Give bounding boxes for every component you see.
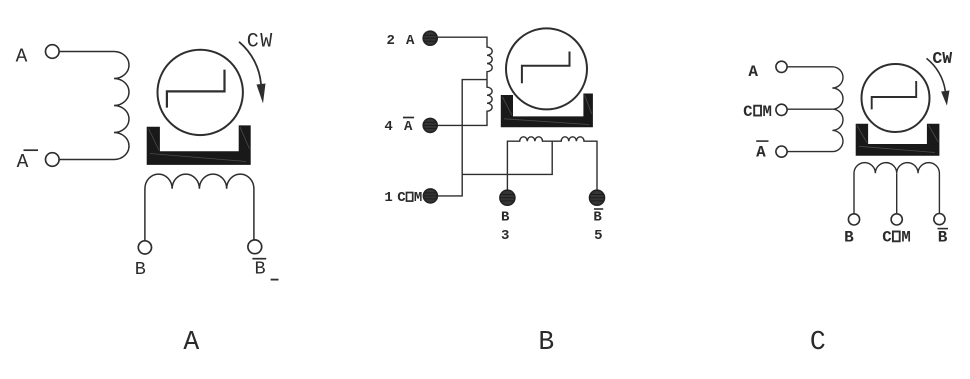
step symbol inside rotor — [522, 52, 570, 84]
motor rotor circle U-C — [862, 64, 930, 132]
svg-text:A: A — [756, 144, 766, 162]
svg-text:C: C — [743, 103, 752, 121]
svg-text:C: C — [397, 190, 406, 206]
svg-text:A: A — [16, 46, 28, 68]
center tap wire to COM — [437, 80, 487, 196]
bracket hatch lines — [149, 127, 250, 162]
terminal A-bar — [46, 153, 60, 167]
terminal COM hatch — [424, 193, 438, 199]
svg-text:C: C — [810, 327, 826, 357]
terminal A — [776, 61, 787, 72]
svg-text:M: M — [414, 190, 422, 206]
terminal 2A (solid) — [423, 31, 437, 45]
stator bracket C — [856, 124, 940, 156]
terminal B-bar — [248, 240, 262, 254]
svg-text:M: M — [901, 229, 910, 247]
CW arrowhead — [941, 91, 949, 106]
CW rotation arrow arc — [239, 42, 261, 84]
svg-text:B: B — [135, 259, 146, 280]
CW rotation arrow arc — [927, 58, 946, 91]
terminal Bbar/5 hatch — [590, 195, 604, 201]
step symbol inside rotor — [167, 70, 225, 108]
svg-text:A: A — [748, 63, 758, 81]
phase B winding (two groups of 3 loops) with leads — [507, 137, 597, 190]
terminal 1 COM (solid) — [423, 189, 437, 203]
terminal B — [848, 214, 859, 225]
svg-text:5: 5 — [594, 228, 602, 244]
macron of A-bar — [403, 117, 414, 119]
svg-text:1: 1 — [384, 190, 392, 206]
svg-text:3: 3 — [501, 228, 509, 244]
svg-text:B: B — [501, 210, 510, 226]
svg-text:CW: CW — [247, 30, 274, 53]
terminal 2A hatch — [424, 35, 438, 41]
bracket hatch lines — [502, 95, 592, 125]
terminal COM — [891, 214, 902, 225]
wire from 2A + upper half winding (3 loops) + lower half winding (3 loops) to 4Abar — [437, 37, 492, 125]
COM tap wire — [787, 108, 832, 110]
wire + winding A (4 loops with center tap) — [787, 67, 843, 152]
terminal B/3 (solid) — [500, 190, 515, 205]
terminal A-bar — [776, 146, 787, 157]
terminal COM — [776, 104, 787, 115]
macron of B-bar — [594, 208, 603, 210]
phase B winding (4 loops) with three leads — [854, 163, 939, 214]
svg-text:2: 2 — [386, 33, 394, 49]
terminal Bbar/5 (solid) — [590, 190, 605, 205]
svg-text:A: A — [183, 327, 199, 357]
svg-text:A: A — [406, 33, 415, 49]
stator bracket A (black U magnet) — [147, 125, 251, 164]
center tap lead — [896, 173, 898, 214]
terminal B-bar — [934, 214, 945, 225]
svg-text:B: B — [538, 327, 554, 357]
svg-text:B: B — [844, 229, 854, 247]
svg-text:A: A — [17, 151, 29, 173]
svg-text:M: M — [762, 103, 771, 121]
stator bracket B — [501, 94, 593, 128]
macron of B-bar — [252, 258, 266, 260]
terminal B — [138, 241, 151, 254]
macron of B-bar — [938, 228, 949, 230]
stray underscore mark — [271, 279, 279, 281]
step symbol inside rotor — [872, 81, 917, 109]
terminal B/3 hatch — [500, 195, 514, 201]
svg-text:4: 4 — [384, 119, 392, 135]
svg-text:C: C — [882, 229, 891, 247]
macron of A-bar — [24, 149, 39, 151]
terminal 4Abar hatch — [424, 122, 438, 128]
motor rotor circle U-B — [506, 28, 587, 109]
bracket hatch lines — [857, 125, 938, 152]
phase B winding (horizontal coil, 4 loops) with lead wires — [145, 174, 254, 241]
svg-text:B: B — [254, 259, 265, 280]
svg-text:A: A — [404, 119, 413, 135]
CW arrowhead — [257, 84, 266, 104]
svg-text:B: B — [938, 229, 948, 247]
macron of A-bar — [756, 140, 768, 142]
motor rotor circle U-A — [158, 50, 243, 135]
center tap of B winding to COM line — [462, 141, 552, 174]
svg-text:CW: CW — [932, 49, 952, 68]
wire + coil A (phase A winding, 4 loops) — [59, 52, 129, 160]
terminal 4Abar (solid) — [423, 118, 437, 132]
terminal A — [46, 45, 60, 59]
svg-text:B: B — [593, 210, 602, 226]
